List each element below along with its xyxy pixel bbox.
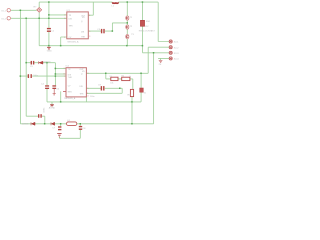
svg-text:2: 2 <box>64 68 65 70</box>
svg-text:THR: THR <box>68 77 73 79</box>
wire diamond bottom vertical V3 <box>38 12 40 45</box>
junction (142.45,45.65) <box>142 45 144 47</box>
junction (60.65,123.75) <box>60 123 62 125</box>
bottom diode D3 <box>51 122 55 125</box>
svg-text:100n: 100n <box>90 96 94 98</box>
row1 cap C5 <box>31 61 32 65</box>
cap C9 on IC2 right pin <box>101 86 102 90</box>
svg-text:X2-4: X2-4 <box>174 59 179 61</box>
connector X1-2 <box>7 17 10 20</box>
wire bottom right vertical to pad4 <box>153 53 155 124</box>
wire IC2 pin2 <box>55 73 66 75</box>
svg-text:100n: 100n <box>44 107 46 113</box>
cap C8 <box>79 126 82 127</box>
cap C4 on x=47 <box>45 85 49 86</box>
junction (44.65,123.75) <box>44 123 46 125</box>
junction (60.65,45.65) <box>60 45 62 47</box>
wire rail2 GND <box>39 45 142 47</box>
agnd symbol <box>50 105 54 106</box>
wire vertical transistor chain <box>126 2 128 46</box>
wire agnd stub <box>51 102 53 105</box>
svg-text:THR: THR <box>80 94 85 96</box>
svg-text:X2-1: X2-1 <box>174 42 179 44</box>
resistor R3 vertical <box>130 89 133 96</box>
junction (26.15,18.25) <box>25 18 27 20</box>
resistor R2 <box>122 77 130 80</box>
cap C7b electrolytic <box>58 126 61 127</box>
svg-text:THR: THR <box>81 37 86 39</box>
wire r3 branch <box>140 73 142 102</box>
svg-text:R4: R4 <box>110 76 112 78</box>
junction (80.25,123.75) <box>80 123 82 125</box>
svg-text:1k: 1k <box>129 76 131 78</box>
junction (48.85,14.85) <box>48 14 50 16</box>
cap C6 on x=55.4 <box>52 85 56 86</box>
junction (142.45,2.05) <box>142 1 144 3</box>
wire diamond top <box>38 2 40 7</box>
svg-text:4: 4 <box>89 15 90 17</box>
wire IC2 right mid with cap <box>86 88 122 93</box>
wire long vertical V2 <box>26 18 38 116</box>
wire resistor R3 bottom <box>131 97 133 124</box>
junction (127.25,2.05) <box>127 1 129 3</box>
junction (46.95,62.65) <box>46 62 48 64</box>
junction (55.35,73.95) <box>55 73 57 75</box>
fuse box F1 <box>140 88 144 92</box>
wire IC2 pin1 <box>55 68 66 70</box>
wire top rail VCC <box>39 1 158 3</box>
wire IC1 lower left pin <box>61 37 67 46</box>
junction (105.75,73.25) <box>105 73 107 75</box>
wire IC1 pin A <box>49 14 67 16</box>
svg-text:10k: 10k <box>110 82 113 84</box>
junction (20.35,76.1) <box>20 75 22 77</box>
svg-text:THR: THR <box>69 26 74 28</box>
capacitor C1 on x=48.9 <box>47 28 51 29</box>
connector X1-1 <box>7 9 10 12</box>
wire vertical x=47 cap C4 <box>46 63 48 102</box>
svg-text:5: 5 <box>87 88 88 90</box>
IC1 box <box>67 12 89 39</box>
svg-text:7: 7 <box>64 76 65 78</box>
svg-text:3: 3 <box>89 36 90 38</box>
capacitor C3 on IC1 pin <box>101 29 102 33</box>
junction (126.85,45.65) <box>126 45 128 47</box>
svg-text:6: 6 <box>64 18 65 20</box>
row2 cap C2 <box>28 74 29 78</box>
wire below IC2 <box>47 91 141 102</box>
junction (153.55,52.75) <box>153 52 155 54</box>
crystal oval Q4 <box>67 122 77 126</box>
junction (141.05,73.25) <box>140 73 142 75</box>
junction (127.25,22.85) <box>127 22 129 24</box>
bottom diode D2 <box>31 122 35 125</box>
junction (119.75,88.25) <box>119 88 121 90</box>
earth gnd bottom <box>57 134 61 137</box>
wire X1-2 to IC1 <box>11 17 67 19</box>
transistor Q3 <box>126 34 129 38</box>
resistor R1 <box>111 77 118 80</box>
wire bottom rail <box>20 123 153 125</box>
varistor diamond <box>37 8 42 13</box>
wire long vertical left V1 <box>19 10 21 124</box>
junction (131.95,101.85) <box>131 101 133 103</box>
svg-text:2: 2 <box>64 15 65 17</box>
junction (26.15,62.65) <box>25 62 27 64</box>
wire pad4 to earth <box>158 58 169 60</box>
wire row2 cap C2 <box>20 75 66 77</box>
svg-text:100n: 100n <box>33 75 37 77</box>
cap C7 on V2 bottom <box>38 114 39 118</box>
junction (131.95,123.75) <box>131 123 133 125</box>
wire vertical x=48.9 with cap <box>48 2 50 46</box>
svg-text:1N4148: 1N4148 <box>43 61 51 63</box>
wire X1-1 to diamond <box>11 9 37 11</box>
svg-text:REED_KONTAKT: REED_KONTAKT <box>139 30 156 33</box>
junction (112.35,31.05) <box>112 30 114 32</box>
IC2 box <box>66 68 86 97</box>
pads X2-1..4 <box>169 40 172 60</box>
junction (55.35,68.45) <box>55 68 57 70</box>
svg-text:GND: GND <box>47 50 52 52</box>
wire resistor row <box>106 73 133 89</box>
junction (48.85,45.65) <box>48 45 50 47</box>
wire cap C7b top leg <box>61 124 81 126</box>
svg-text:X1-1: X1-1 <box>1 10 6 12</box>
row1 diode D1 <box>38 61 43 64</box>
inductor L1 <box>112 2 118 4</box>
wire IC1 right pin to cap C3 <box>88 23 127 31</box>
junction (39.15,18.25) <box>38 18 40 20</box>
IC2 pin stub red <box>63 90 66 92</box>
transistor Q1 <box>126 16 129 20</box>
junction (60.65,101.85) <box>60 101 62 103</box>
junction (48.85,18.25) <box>48 18 50 20</box>
svg-text:X2-3: X2-3 <box>174 53 179 55</box>
svg-text:NE556N_A: NE556N_A <box>68 40 79 43</box>
wire pad2 chain <box>86 47 169 73</box>
junction (20.35,10.25) <box>20 10 22 12</box>
gnd below C6 <box>53 89 56 95</box>
svg-text:5: 5 <box>89 31 90 33</box>
svg-text:3: 3 <box>87 73 88 75</box>
wire cap C7 right leg <box>42 116 45 124</box>
svg-text:NE556N_A: NE556N_A <box>64 97 75 100</box>
svg-text:1: 1 <box>64 37 65 39</box>
svg-text:X1-2: X1-2 <box>1 18 6 20</box>
transistor Q2 <box>126 25 129 29</box>
wire row1 to IC2 <box>26 63 55 86</box>
relay/box K1 <box>140 20 144 26</box>
wire rail down to pad X2-1 <box>158 2 169 41</box>
wire cap C8 bottom leg <box>59 130 80 138</box>
label IC2 pin texts left <box>68 15 86 96</box>
svg-text:AGND: AGND <box>22 123 29 126</box>
wire vertical relay chain <box>143 2 170 53</box>
wire IC1 vcc pin <box>88 2 93 15</box>
earth symbol near pad4 <box>159 60 163 62</box>
junction (55.35,76.1) <box>55 75 57 77</box>
gnd symbol below rail2 <box>47 47 51 49</box>
svg-text:4: 4 <box>87 96 88 98</box>
junction (48.85,2.05) <box>48 1 50 3</box>
svg-text:X2-2: X2-2 <box>174 47 179 49</box>
